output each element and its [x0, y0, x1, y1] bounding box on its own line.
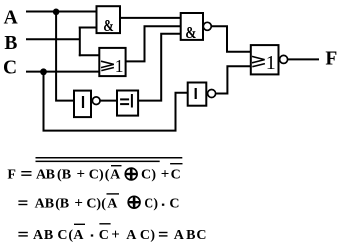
op: OR gate U2 (&#8805;1)	[99, 48, 125, 76]
wire NOT2 output to NOR input 2	[216, 66, 251, 93]
svg-text:(: (	[105, 168, 110, 183]
svg-text:A: A	[73, 228, 84, 243]
svg-text:C: C	[140, 228, 150, 243]
equals sign line 1	[21, 171, 31, 176]
node A junction dot	[53, 9, 60, 16]
svg-text:B: B	[44, 228, 53, 243]
svg-text:): )	[151, 168, 156, 183]
svg-text:C: C	[196, 228, 206, 243]
svg-text:&: &	[103, 16, 114, 35]
op: XOR gate U4 (=1)	[117, 91, 138, 116]
svg-text:A: A	[107, 197, 118, 212]
svg-text:C: C	[144, 197, 153, 212]
wire AND1 output to NAND input 1	[120, 17, 181, 19]
svg-text:C: C	[89, 168, 99, 183]
svg-text:C: C	[171, 168, 181, 183]
node C junction dot	[40, 68, 47, 75]
wire NOR output to F	[288, 58, 319, 60]
svg-text:B: B	[60, 197, 69, 212]
svg-text:A: A	[110, 168, 121, 183]
svg-text:+: +	[161, 167, 170, 183]
svg-text:C: C	[99, 228, 109, 243]
svg-text:C: C	[3, 58, 17, 79]
svg-text:C: C	[141, 168, 151, 183]
svg-text:): )	[99, 168, 104, 183]
svg-text:B: B	[4, 33, 17, 54]
svg-text:+: +	[111, 227, 120, 243]
wire input B	[26, 38, 80, 40]
op: NAND gate U5 (& with bubble)	[181, 13, 212, 42]
formula line 2: = AB(B+C)(Abar xor C) . C	[35, 196, 180, 212]
wire input C	[26, 71, 99, 73]
svg-text:B: B	[46, 168, 55, 183]
equals sign line 2	[18, 200, 27, 205]
wire B to AND1 input 2	[79, 27, 97, 29]
svg-text:A: A	[174, 228, 185, 243]
equals signs line 3	[18, 232, 167, 237]
wire B to OR1 input 1	[79, 54, 100, 56]
svg-text:A: A	[33, 228, 44, 243]
svg-text:C: C	[86, 197, 96, 212]
svg-text:(: (	[101, 197, 106, 212]
op: NOT gate U3 (1 with bubble)	[74, 91, 100, 118]
overlines line 3 (A bar, C bar)	[74, 223, 111, 225]
svg-text:): )	[150, 228, 155, 243]
op: AND gate U1 (&)	[97, 6, 121, 35]
dot operator line 3	[91, 234, 93, 236]
xor symbol line 2	[128, 196, 140, 208]
svg-text:C: C	[57, 228, 67, 243]
svg-text:1: 1	[115, 56, 124, 76]
wire XNOR output to NAND input 3	[138, 34, 181, 101]
svg-text:B: B	[62, 168, 71, 183]
svg-text:F: F	[7, 168, 16, 183]
svg-text:+: +	[74, 196, 83, 212]
svg-text:&: &	[185, 23, 196, 42]
wire OR1 output to NAND input 2	[126, 26, 181, 61]
svg-text:C: C	[169, 197, 179, 212]
wire NAND output to NOR input 1	[211, 26, 251, 52]
wire B jog vertical	[79, 27, 81, 57]
wire A branch down to NOT1	[56, 12, 74, 101]
svg-text:B: B	[45, 197, 54, 212]
wire C branch to NOT2	[44, 72, 188, 131]
wire input A	[26, 11, 97, 13]
formula line 1: F = double-overline( overline(AB(B+C)(Abar xor C)) + Cbar )	[7, 167, 180, 183]
overlines line 1	[36, 157, 183, 166]
wire NOT1 output to XNOR input	[100, 100, 117, 102]
overline line 2 (A bar)	[107, 193, 120, 194]
svg-text:B: B	[186, 228, 195, 243]
svg-text:A: A	[126, 228, 137, 243]
xor symbol line 1	[125, 168, 137, 180]
formula line 3: = ABC(Abar . Cbar + AC) = ABC	[33, 227, 207, 243]
op: NOR gate U7 (&#8805;1 with bubble)	[251, 45, 288, 74]
svg-text:+: +	[77, 167, 86, 183]
dot operator line 2	[162, 204, 164, 206]
svg-text:F: F	[325, 48, 337, 69]
svg-text:): )	[153, 197, 158, 212]
svg-text:A: A	[4, 8, 18, 29]
svg-text:1: 1	[266, 52, 276, 74]
op: NOT gate U6 (1 with bubble)	[188, 83, 216, 106]
